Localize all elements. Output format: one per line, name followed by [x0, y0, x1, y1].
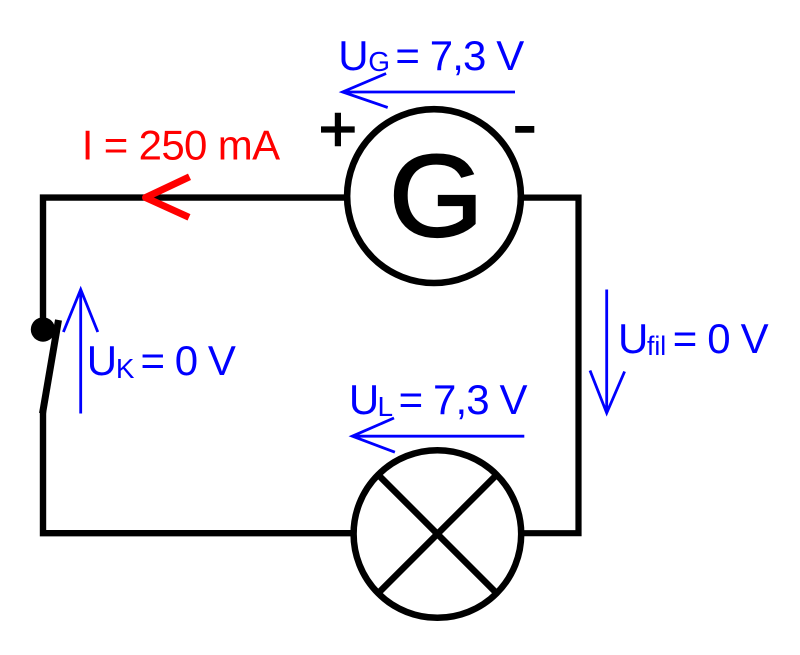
- wire lower-left segment from switch to lamp: [43, 410, 356, 533]
- blue voltage arrow U_G (points left): [343, 74, 515, 108]
- svg-text:I = 250 mA: I = 250 mA: [82, 122, 280, 169]
- generator G circle: [347, 109, 521, 283]
- svg-text:Ufil= 0 V: Ufil= 0 V: [618, 315, 769, 362]
- generator letter G: [389, 132, 484, 262]
- blue voltage arrow U_K (points up): [63, 290, 97, 414]
- lamp cross line 2: [378, 475, 497, 594]
- blue voltage arrow U_fil (points down): [590, 290, 625, 414]
- svg-text:G: G: [389, 132, 484, 262]
- svg-text:UL= 7,3 V: UL= 7,3 V: [349, 376, 528, 423]
- generator + terminal: [321, 113, 355, 146]
- lamp L circle: [354, 450, 522, 618]
- switch blade K: [43, 320, 59, 414]
- wire top-right segment, right side drop and stub to lamp: [520, 198, 579, 534]
- svg-text:UK= 0 V: UK= 0 V: [87, 337, 236, 384]
- generator - terminal: [515, 126, 534, 133]
- wire top-left segment and left drop to switch contact: [43, 198, 348, 318]
- red current arrow on top wire: [146, 177, 190, 218]
- svg-text:UG= 7,3 V: UG= 7,3 V: [338, 32, 524, 79]
- lamp cross line 1: [378, 475, 497, 594]
- blue voltage arrow U_L (points left): [352, 418, 524, 452]
- switch contact node (dot): [31, 317, 55, 341]
